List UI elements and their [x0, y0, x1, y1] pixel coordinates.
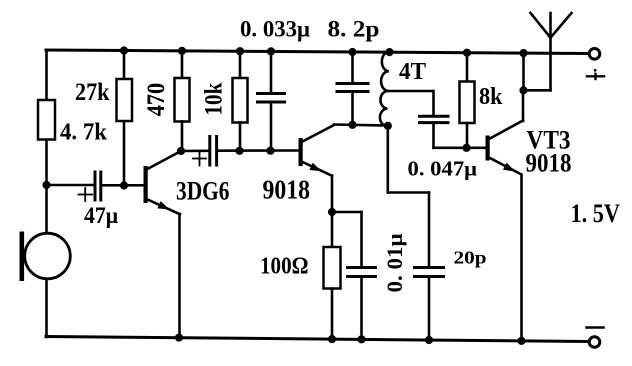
resistor R 10k — [233, 51, 248, 151]
wire left vertical branch — [45, 50, 48, 337]
svg-text:0. 047μ: 0. 047μ — [408, 157, 478, 181]
wire base line of 3DG6 (audio input) — [47, 184, 145, 187]
node junction 8k/base — [462, 144, 470, 152]
svg-text:8k: 8k — [479, 84, 503, 110]
svg-text:27k: 27k — [75, 79, 110, 106]
node junction collector/antenna — [519, 86, 527, 94]
node junction rail/collector feed — [519, 49, 527, 57]
node junction rail/coil — [385, 48, 393, 56]
node junction rail/27k — [120, 46, 128, 54]
antenna — [531, 13, 572, 90]
wire branch to 0.01u — [332, 212, 362, 268]
wire interstage coupling line — [181, 149, 299, 152]
node junction 0.01u/ground — [357, 335, 365, 343]
svg-text:20p: 20p — [454, 248, 487, 268]
svg-text:47μ: 47μ — [84, 203, 118, 228]
resistor R 100ohm — [324, 247, 341, 340]
svg-text:470: 470 — [143, 83, 170, 117]
battery - polarity mark — [587, 326, 604, 329]
node junction rail/470 — [178, 47, 186, 55]
microphone BM — [20, 232, 71, 282]
wire 0.047u to VT3 base — [434, 147, 486, 150]
wire collector to antenna pole — [524, 89, 551, 92]
wire emitter of VT3 to ground — [520, 176, 523, 342]
svg-text:8. 2p: 8. 2p — [328, 17, 380, 42]
resistor R 27k — [117, 51, 133, 122]
node junction rail/8.2p — [348, 48, 356, 56]
wire top supply rail — [46, 50, 588, 54]
svg-text:4T: 4T — [399, 59, 426, 85]
plus mark of 47u — [79, 188, 93, 201]
wire rail to collector node — [522, 53, 525, 90]
svg-text:3DG6: 3DG6 — [176, 177, 230, 206]
wire emitter of 9018 down — [331, 176, 334, 248]
node junction 10k/base wire — [235, 147, 243, 155]
plus mark of coupling cap — [193, 153, 206, 166]
svg-text:0. 01μ: 0. 01μ — [382, 233, 407, 293]
node junction 20p/ground — [425, 336, 433, 344]
resistor R 4.7k — [38, 100, 55, 140]
node junction rail/0.033u — [267, 47, 275, 55]
capacitor C coupling electrolytic — [210, 137, 217, 166]
wire tank bottom to 20p — [388, 126, 429, 193]
node junction coil/collector — [384, 122, 392, 130]
transistor Q2 9018 — [299, 125, 335, 176]
svg-text:0. 033μ: 0. 033μ — [240, 17, 310, 42]
transistor Q3 VT3 9018 — [486, 91, 524, 176]
inductor L 4T — [380, 52, 433, 126]
node junction emitter/ground — [175, 334, 183, 342]
wire bottom ground rail — [46, 337, 588, 342]
node junction rail/10k — [236, 47, 244, 55]
transistor Q1 3DG6 — [144, 151, 182, 214]
wire 27k lower lead — [123, 121, 126, 186]
terminal top-right battery + — [589, 49, 600, 60]
resistor R 8k — [460, 53, 475, 148]
svg-text:1. 5V: 1. 5V — [571, 199, 621, 228]
svg-text:10k: 10k — [201, 83, 228, 116]
node junction 27k/base — [120, 181, 128, 189]
wire emitter of 3DG6 to ground — [178, 214, 181, 338]
node junction emitter branch — [328, 208, 336, 216]
capacitor C 0.047u — [420, 91, 449, 148]
svg-text:4. 7k: 4. 7k — [60, 120, 108, 146]
capacitor C 8.2p — [337, 52, 368, 125]
capacitor C 0.033u — [258, 52, 285, 152]
terminal bottom-right battery - — [589, 337, 600, 348]
battery + polarity mark — [587, 69, 604, 79]
node junction mic/cap — [42, 181, 50, 189]
node junction VT3 emitter/ground — [517, 337, 525, 345]
resistor R 470 — [175, 51, 190, 151]
svg-text:100Ω: 100Ω — [260, 254, 309, 280]
node junction collector 3DG6 — [177, 147, 185, 155]
wire collector of 9018 to tank — [334, 125, 388, 126]
node junction rail/8k — [463, 49, 471, 57]
node junction 8.2p/collector — [348, 121, 356, 129]
svg-text:9018: 9018 — [526, 149, 572, 178]
node junction 100ohm/ground — [328, 335, 336, 343]
svg-text:9018: 9018 — [263, 175, 311, 205]
capacitor C 0.01u — [348, 268, 376, 341]
capacitor C 20p — [415, 193, 444, 341]
node junction 0.033u/base wire — [266, 147, 274, 155]
capacitor C 47u electrolytic — [95, 172, 101, 200]
